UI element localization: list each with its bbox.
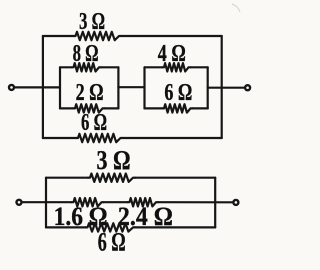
- inner box left: right edge: [117, 67, 119, 108]
- svg-text:8 Ω: 8 Ω: [73, 41, 99, 67]
- resistor R 3Ω top (circuit 1): [74, 32, 122, 40]
- wire right edge (circuit 2): [214, 178, 216, 228]
- wire left lead (circuit 1): [15, 86, 60, 88]
- inner box right: bottom edge stubs: [145, 107, 208, 109]
- wire left edge of outer loop (circuit 1): [42, 36, 44, 138]
- terminal right (circuit 1): [245, 85, 250, 90]
- svg-text:3 Ω: 3 Ω: [79, 9, 105, 35]
- resistor R 8Ω: [72, 63, 102, 71]
- wire top edge (circuit 2): [46, 177, 215, 179]
- svg-text:4 Ω: 4 Ω: [158, 41, 186, 67]
- resistor R 1.6Ω: [72, 198, 104, 206]
- svg-text:2 Ω: 2 Ω: [76, 80, 104, 106]
- wire bottom edge of outer loop (circuit 1): [43, 137, 222, 139]
- resistor R 2Ω: [73, 104, 105, 112]
- svg-text:6 Ω: 6 Ω: [98, 228, 126, 257]
- resistor R 6Ω bottom (circuit 1): [76, 134, 123, 142]
- inner box left: top edge stubs: [60, 66, 118, 68]
- resistor R 2.4Ω: [128, 198, 159, 206]
- inner box left: bottom edge stubs: [60, 107, 118, 109]
- terminal left (circuit 1): [9, 85, 14, 90]
- faint stray scan mark: [232, 4, 240, 12]
- wire right edge of outer loop (circuit 1): [221, 36, 223, 138]
- resistor R 3Ω (circuit 2): [88, 174, 135, 182]
- wire right lead (circuit 1): [208, 87, 245, 89]
- wire top edge of outer loop (circuit 1): [43, 35, 222, 37]
- inner box right: left edge: [143, 67, 145, 108]
- resistor R 6Ω inner: [162, 104, 193, 112]
- resistor R 4Ω: [162, 63, 191, 71]
- wire left lead (circuit 2): [22, 201, 71, 203]
- inner box left: left edge: [59, 67, 61, 108]
- wire right lead (circuit 2): [158, 201, 233, 203]
- svg-text:6 Ω: 6 Ω: [164, 80, 192, 106]
- terminal left (circuit 2): [17, 200, 22, 205]
- inner box right: right edge: [207, 67, 209, 108]
- wire left edge (circuit 2): [45, 178, 47, 228]
- svg-text:6 Ω: 6 Ω: [81, 110, 107, 136]
- svg-text:3 Ω: 3 Ω: [97, 144, 131, 175]
- terminal right (circuit 2): [233, 200, 238, 205]
- wire between 1.6Ω and 2.4Ω: [104, 201, 128, 203]
- inner box right: top edge stubs: [145, 66, 208, 68]
- wire between inner boxes: [118, 86, 144, 88]
- resistor R 6Ω (circuit 2): [86, 223, 136, 231]
- wire bottom edge (circuit 2): [46, 226, 215, 228]
